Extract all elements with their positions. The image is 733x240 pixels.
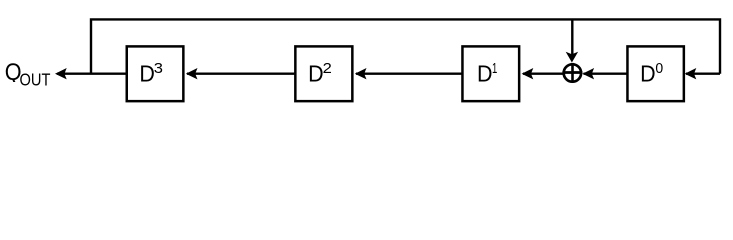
xor gate	[564, 64, 581, 81]
wire: feedback tap down into XOR	[571, 19, 573, 54]
svg-text:2: 2	[323, 60, 332, 77]
wire: D3 output to QOUT	[57, 72, 127, 74]
flip-flop D0	[627, 46, 683, 101]
flip-flop D1	[462, 46, 519, 101]
svg-text:D: D	[640, 61, 656, 87]
arrowhead into XOR top	[566, 52, 578, 63]
flip-flop D2	[295, 46, 352, 101]
svg-text:3: 3	[154, 60, 163, 77]
wire: D2 output to D3	[187, 72, 295, 74]
svg-text:D: D	[139, 61, 155, 87]
svg-text:D: D	[477, 61, 493, 87]
svg-text:0: 0	[655, 60, 663, 77]
svg-text:1: 1	[492, 60, 497, 77]
flip-flop D3	[127, 46, 184, 101]
wire: D1 output to D2	[356, 72, 463, 74]
svg-text:D: D	[308, 61, 324, 87]
arrowhead at D2 input	[355, 68, 367, 79]
svg-text:OUT: OUT	[20, 70, 51, 90]
arrowhead at XOR right input	[582, 68, 594, 79]
wire: XOR output to D1	[523, 72, 564, 74]
wire: feedback loop left vertical, top horizontal, right vertical	[91, 19, 720, 73]
arrowhead at QOUT	[55, 68, 67, 79]
arrowhead at D0 input	[685, 68, 697, 79]
wire: D0 output to XOR	[584, 72, 628, 74]
arrowhead at D3 input	[186, 68, 198, 79]
wire: feedback into D0 input	[686, 72, 720, 74]
arrowhead at D1 input	[522, 68, 534, 79]
